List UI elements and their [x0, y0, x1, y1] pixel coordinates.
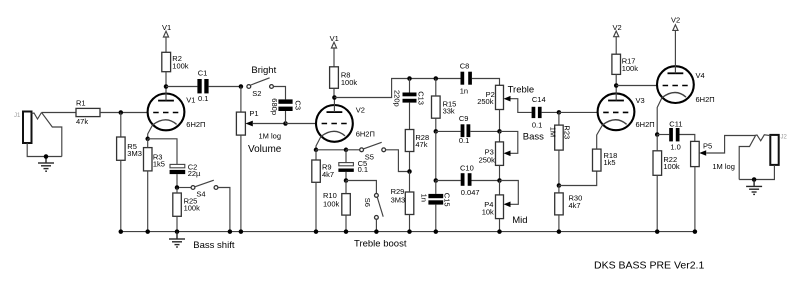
node C1/S2/P1 [239, 84, 244, 89]
svg-text:6Н2П: 6Н2П [186, 120, 205, 129]
svg-text:250k: 250k [479, 155, 496, 164]
capacitor C8 [460, 61, 472, 95]
svg-text:10k: 10k [482, 207, 494, 216]
node bus P4 [497, 229, 502, 234]
svg-text:6Н2П: 6Н2П [696, 95, 715, 104]
switch S6 [346, 181, 383, 232]
svg-text:J2: J2 [781, 135, 788, 141]
node V3 grid [557, 110, 562, 115]
svg-text:3M3: 3M3 [127, 149, 142, 158]
svg-text:22µ: 22µ [188, 169, 201, 178]
node P1 wiper / C3 [283, 121, 288, 126]
svg-text:1k5: 1k5 [153, 159, 165, 168]
svg-text:C13: C13 [417, 91, 426, 105]
wire S4 to ground bus [218, 188, 230, 232]
svg-text:33k: 33k [443, 107, 455, 116]
capacitor C1 [197, 68, 208, 102]
svg-text:Bass: Bass [523, 132, 544, 143]
svg-text:J1: J1 [14, 113, 21, 119]
svg-text:Mid: Mid [512, 215, 527, 226]
wire cathode to C2 [148, 139, 177, 165]
wire C1 to S2/P1 [209, 86, 241, 88]
wire P5 wiper to jack J2 [706, 136, 754, 154]
wire S2 to C3 [273, 87, 285, 100]
svg-text:47k: 47k [415, 140, 427, 149]
resistor R29 [391, 172, 414, 232]
node C10 rail left [434, 178, 439, 183]
potentiometer P4 [482, 181, 519, 232]
resistor R5 [117, 113, 142, 232]
svg-text:47k: 47k [76, 117, 88, 126]
op-amp V4 triode [657, 30, 715, 134]
node bus R30 [557, 229, 562, 234]
wire P1 wiper to V2 grid [253, 123, 286, 125]
svg-text:0.1: 0.1 [459, 136, 469, 145]
svg-text:C8: C8 [460, 61, 470, 70]
op-amp V1 triode [148, 87, 206, 139]
svg-text:V4: V4 [696, 71, 705, 80]
svg-text:100k: 100k [184, 204, 201, 213]
capacitor C2 [170, 162, 201, 187]
svg-text:Bass shift: Bass shift [193, 240, 235, 251]
capacitor C10 [436, 164, 500, 197]
potentiometer P3 [479, 131, 518, 180]
node V1 supply [162, 23, 171, 52]
switch S2 [247, 78, 273, 98]
svg-text:Bright: Bright [251, 65, 276, 76]
node C9 rail left [434, 129, 439, 134]
resistor R15 [432, 79, 457, 132]
svg-text:V3: V3 [636, 96, 645, 105]
svg-text:C9: C9 [459, 114, 469, 123]
svg-text:0.1: 0.1 [198, 94, 208, 103]
resistor R8 [330, 67, 358, 89]
svg-text:S6: S6 [363, 198, 372, 207]
svg-text:R23: R23 [562, 125, 571, 139]
node bus R3 [145, 229, 150, 234]
node R23/R30 [557, 183, 562, 188]
wire ground bus [121, 231, 695, 233]
svg-text:100k: 100k [172, 61, 189, 70]
node C13 top [407, 76, 412, 81]
resistor R18 [593, 149, 618, 171]
svg-text:Treble boost: Treble boost [354, 239, 407, 250]
svg-text:C10: C10 [460, 164, 474, 173]
wire plate to C1 [166, 86, 197, 88]
node R15 top [434, 76, 439, 81]
svg-text:1n: 1n [460, 87, 468, 96]
potentiometer P5 [691, 141, 735, 231]
svg-text:S5: S5 [365, 152, 374, 161]
svg-text:DKS BASS PRE Ver2.1: DKS BASS PRE Ver2.1 [594, 260, 704, 272]
svg-text:C11: C11 [669, 120, 682, 129]
node grid V1 / R5 [119, 110, 124, 115]
node V1 cathode [145, 137, 150, 142]
capacitor C15 [419, 181, 451, 232]
node P3/P4 junction [497, 178, 502, 183]
ground (main bus) [169, 232, 185, 247]
node V4 cathode [655, 132, 660, 137]
potentiometer P2 [477, 85, 510, 131]
capacitor C13 [393, 79, 426, 130]
svg-text:R1: R1 [76, 99, 86, 108]
node C2/R25/S4 [175, 185, 180, 190]
svg-text:C3: C3 [294, 100, 303, 110]
wire C14 to V3 grid [542, 111, 559, 113]
resistor R25 [173, 188, 200, 232]
wire R23 node to R18 [559, 171, 597, 185]
svg-text:100k: 100k [663, 162, 680, 171]
svg-text:1M: 1M [549, 127, 558, 137]
svg-text:6Н2П: 6Н2П [636, 120, 655, 129]
node V1 supply (R8) [330, 34, 339, 67]
node bus S6 [374, 229, 379, 234]
node bus R5 [119, 229, 124, 234]
svg-text:C1: C1 [198, 68, 208, 77]
svg-text:6Н2П: 6Н2П [356, 130, 375, 139]
node bus C15 [434, 229, 439, 234]
svg-text:220p: 220p [393, 90, 402, 107]
op-amp V3 triode [597, 86, 655, 150]
node V3 plate [614, 83, 619, 88]
resistor R9 [312, 150, 334, 232]
node P2/P3 junction [497, 129, 502, 134]
node bus R29 [407, 229, 412, 234]
wire R8 to plate [333, 88, 335, 97]
svg-text:S4: S4 [196, 190, 205, 199]
node R28/R29/S5 [407, 169, 412, 174]
resistor R2 [162, 52, 189, 71]
wire jack to R1 [42, 112, 77, 114]
wire V3 plate to V4 grid [616, 85, 657, 87]
svg-text:V2: V2 [613, 23, 622, 32]
node V2 supply (R17) [613, 23, 622, 54]
potentiometer P1 [236, 87, 281, 232]
svg-text:0.1: 0.1 [358, 165, 368, 174]
node C5/R10/S6 [344, 178, 349, 183]
svg-text:100k: 100k [323, 199, 340, 208]
node V2 plate [332, 95, 337, 100]
node input junction [44, 154, 49, 159]
svg-text:1M log: 1M log [259, 132, 282, 141]
svg-text:4k7: 4k7 [322, 170, 334, 179]
svg-text:4k7: 4k7 [569, 201, 581, 210]
svg-text:V2: V2 [356, 106, 365, 115]
svg-text:C15: C15 [443, 193, 452, 207]
wire V2 plate to tone stack [334, 79, 460, 98]
svg-text:V1: V1 [186, 95, 195, 104]
wire to S5 [346, 149, 360, 151]
svg-text:1n: 1n [419, 194, 428, 202]
op-amp V2 triode [316, 98, 375, 150]
wire R2 to plate [165, 72, 167, 87]
resistor R10 [323, 181, 350, 232]
node bus P1 [239, 229, 244, 234]
svg-text:Treble: Treble [508, 85, 535, 96]
switch S5 [360, 142, 386, 161]
resistor R28 [405, 130, 429, 172]
svg-text:100k: 100k [341, 78, 358, 87]
wire C11 to P5 [680, 135, 695, 142]
node bus R10 [344, 229, 349, 234]
resistor R1 [76, 99, 100, 127]
resistor R23 [549, 112, 572, 185]
svg-text:250k: 250k [477, 97, 494, 106]
svg-text:0.1: 0.1 [532, 121, 542, 130]
wire C8 to P2 [472, 79, 500, 86]
ground (input jack) [38, 157, 54, 172]
node V1 plate [164, 84, 169, 89]
wire S5 to R29 [386, 150, 410, 172]
wire P2 wiper to C14 [511, 99, 532, 113]
capacitor C14 [532, 95, 546, 129]
wire cathode row [316, 149, 346, 151]
svg-text:1.0: 1.0 [670, 142, 680, 151]
capacitor C9 [436, 114, 500, 145]
resistor R3 [144, 139, 165, 232]
svg-text:3M3: 3M3 [391, 196, 406, 205]
jack J2 [739, 135, 779, 180]
svg-text:Volume: Volume [248, 144, 282, 155]
resistor R17 [612, 54, 638, 74]
svg-text:S2: S2 [252, 89, 261, 98]
wire to V3 [559, 111, 598, 113]
wire R1 to V1 grid [100, 112, 148, 114]
node bus R25 [175, 229, 180, 234]
resistor R30 [555, 186, 583, 232]
node bus P5 [693, 229, 698, 234]
node output junction [752, 177, 757, 182]
node bus S4 [228, 229, 233, 234]
node V2 cathode [314, 148, 319, 153]
capacitor C3 [270, 98, 303, 123]
resistor R22 [653, 135, 680, 232]
svg-text:100k: 100k [622, 64, 639, 73]
capacitor C5 [338, 150, 368, 181]
svg-text:C14: C14 [532, 95, 546, 104]
node C5 top [344, 148, 349, 153]
svg-text:P1: P1 [249, 109, 258, 118]
wire to V2 grid [286, 123, 317, 125]
wire R15 to C15 [435, 131, 437, 180]
jack J1 [23, 112, 62, 157]
capacitor C11 [657, 120, 682, 152]
svg-text:P5: P5 [703, 141, 712, 150]
svg-text:V2: V2 [671, 16, 680, 25]
node bus R9 [314, 229, 319, 234]
svg-text:0.047: 0.047 [461, 188, 480, 197]
node bus R22 [655, 229, 660, 234]
svg-text:1M log: 1M log [712, 162, 735, 171]
switch S4 [179, 180, 218, 198]
svg-text:1k5: 1k5 [604, 158, 616, 167]
svg-text:680p: 680p [270, 98, 279, 115]
ground (output jack) [746, 180, 762, 195]
node V2 supply (V4) [671, 16, 680, 31]
wire R17 to V3 plate [615, 74, 617, 85]
svg-text:V1: V1 [162, 23, 171, 32]
